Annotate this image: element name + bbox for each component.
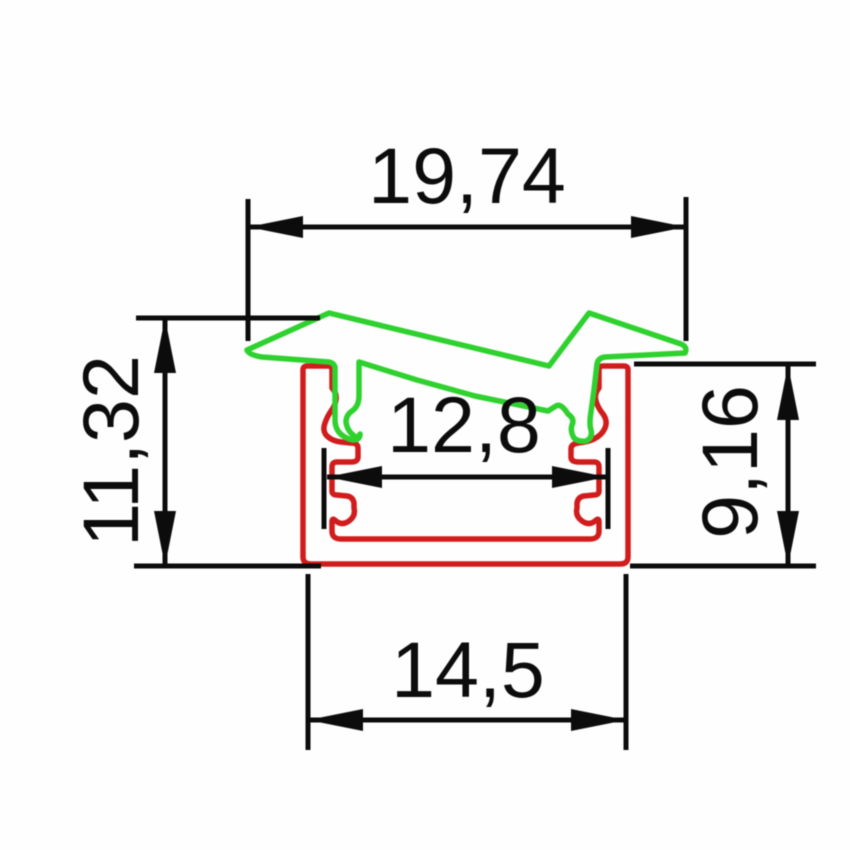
dimension 9,16 arrowheads — [777, 365, 799, 566]
svg-text:9,16: 9,16 — [685, 385, 774, 539]
dimension 12,8 arrowheads — [327, 466, 607, 488]
dimension 19,74 arrowheads — [248, 216, 686, 238]
svg-text:11,32: 11,32 — [66, 355, 155, 547]
dimension 12,8 line — [324, 448, 608, 529]
dimension 11,32 line — [134, 318, 321, 566]
cover (green clip-in diffuser outline, tilted) — [247, 313, 686, 441]
profile body (red aluminium channel outline) — [303, 366, 628, 564]
svg-text:14,5: 14,5 — [391, 625, 545, 714]
dimension 19,74 line — [248, 197, 686, 341]
svg-text:19,74: 19,74 — [368, 131, 566, 220]
svg-text:12,8: 12,8 — [387, 380, 541, 469]
dimension 11,32 arrowheads — [154, 318, 176, 566]
dimension 14,5 line — [308, 574, 626, 750]
dimension 14,5 arrowheads — [308, 709, 626, 731]
dimension 9,16 line — [630, 364, 816, 566]
